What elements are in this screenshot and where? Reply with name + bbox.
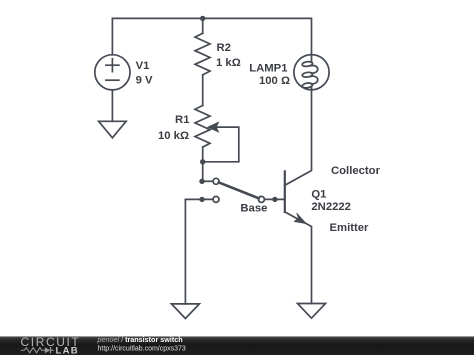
svg-text:Base: Base — [240, 202, 267, 214]
R1 wiper arrow and loop wire — [203, 127, 239, 162]
junction dot switch top throw — [199, 179, 204, 184]
logo resistor zigzag — [21, 348, 45, 353]
resistor R2 — [195, 33, 210, 75]
svg-text:Emitter: Emitter — [330, 222, 370, 234]
svg-text:9 V: 9 V — [136, 75, 153, 87]
switch SW1 throw stub bottom — [185, 198, 213, 200]
transistor Q1 base bar — [284, 171, 286, 212]
switch SW1 throw terminal top — [213, 178, 219, 184]
lamp LAMP1 body — [294, 55, 329, 90]
svg-text:http://circuitlab.com/cpxs373: http://circuitlab.com/cpxs373 — [98, 345, 186, 352]
wire R1 bottom to switch — [202, 147, 204, 181]
potentiometer R1 — [195, 106, 210, 148]
transistor Q1 emitter lead — [285, 212, 312, 304]
wire V1 to ground — [111, 90, 113, 121]
wire switch to left ground — [184, 199, 186, 304]
svg-text:LAMP1: LAMP1 — [249, 62, 287, 74]
ground left — [171, 304, 199, 319]
voltage source V1 plus sign — [106, 59, 119, 72]
svg-text:LAB: LAB — [56, 345, 79, 355]
svg-text:R1: R1 — [175, 114, 189, 126]
switch SW1 throw terminal bottom — [213, 196, 219, 202]
ground right (emitter) — [298, 304, 326, 319]
logo diode symbol — [45, 347, 51, 353]
svg-text:penoel / transistor switch: penoel / transistor switch — [97, 335, 183, 344]
svg-text:V1: V1 — [136, 60, 150, 72]
switch SW1 pole terminal — [258, 196, 264, 202]
lamp LAMP1 filament — [311, 55, 313, 63]
junction dot switch bottom throw — [199, 197, 204, 202]
voltage source V1 body — [95, 55, 130, 90]
junction dot R1 loop — [200, 159, 205, 164]
svg-text:2N2222: 2N2222 — [311, 201, 351, 213]
svg-text:Collector: Collector — [331, 165, 381, 177]
transistor Q1 collector lead — [285, 90, 312, 186]
voltage source V1 minus sign — [106, 79, 119, 81]
wire top rail from V1 to lamp — [112, 18, 311, 54]
switch SW1 lever — [219, 182, 259, 198]
switch SW1 throw stub top — [203, 180, 213, 182]
svg-text:Q1: Q1 — [311, 189, 326, 201]
svg-text:R2: R2 — [217, 42, 231, 54]
transistor Q1 emitter arrow — [294, 213, 306, 224]
wire R2 branch from top rail — [202, 18, 204, 33]
wire R2 to R1 — [202, 75, 204, 106]
junction dot Q1 base — [272, 197, 277, 202]
wire switch pole to Q1 base — [264, 198, 284, 200]
ground V1 — [99, 121, 127, 138]
svg-text:10 kΩ: 10 kΩ — [158, 130, 189, 142]
svg-text:100 Ω: 100 Ω — [259, 75, 290, 87]
svg-text:1 kΩ: 1 kΩ — [216, 57, 241, 69]
junction dot top rail / R2 — [200, 16, 205, 21]
footer bar — [0, 336, 474, 355]
